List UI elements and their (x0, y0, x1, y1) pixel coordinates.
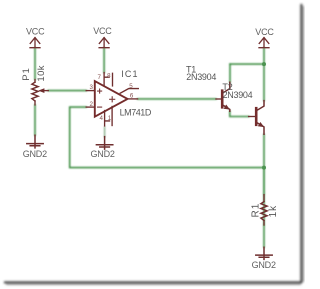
svg-text:P1: P1 (21, 67, 32, 80)
svg-text:VCC: VCC (93, 26, 112, 36)
svg-text:7: 7 (98, 74, 102, 81)
svg-text:GND2: GND2 (90, 149, 114, 159)
svg-text:GND2: GND2 (23, 149, 47, 159)
svg-text:IC1: IC1 (121, 69, 138, 79)
svg-text:8: 8 (107, 73, 111, 80)
svg-text:R1: R1 (251, 203, 262, 218)
svg-text:4: 4 (100, 115, 104, 122)
svg-text:GND2: GND2 (252, 260, 276, 270)
svg-text:5: 5 (129, 83, 133, 90)
svg-text:VCC: VCC (26, 27, 45, 37)
svg-text:6: 6 (130, 92, 134, 99)
svg-text:2N3904: 2N3904 (186, 72, 216, 82)
svg-text:VCC: VCC (255, 27, 274, 37)
svg-text:LM741D: LM741D (120, 108, 152, 118)
svg-text:3: 3 (90, 84, 94, 91)
svg-text:2N3904: 2N3904 (223, 90, 253, 100)
svg-text:10k: 10k (36, 65, 47, 82)
svg-text:2: 2 (90, 101, 94, 108)
svg-text:1: 1 (108, 115, 112, 122)
svg-text:1k: 1k (268, 205, 279, 218)
